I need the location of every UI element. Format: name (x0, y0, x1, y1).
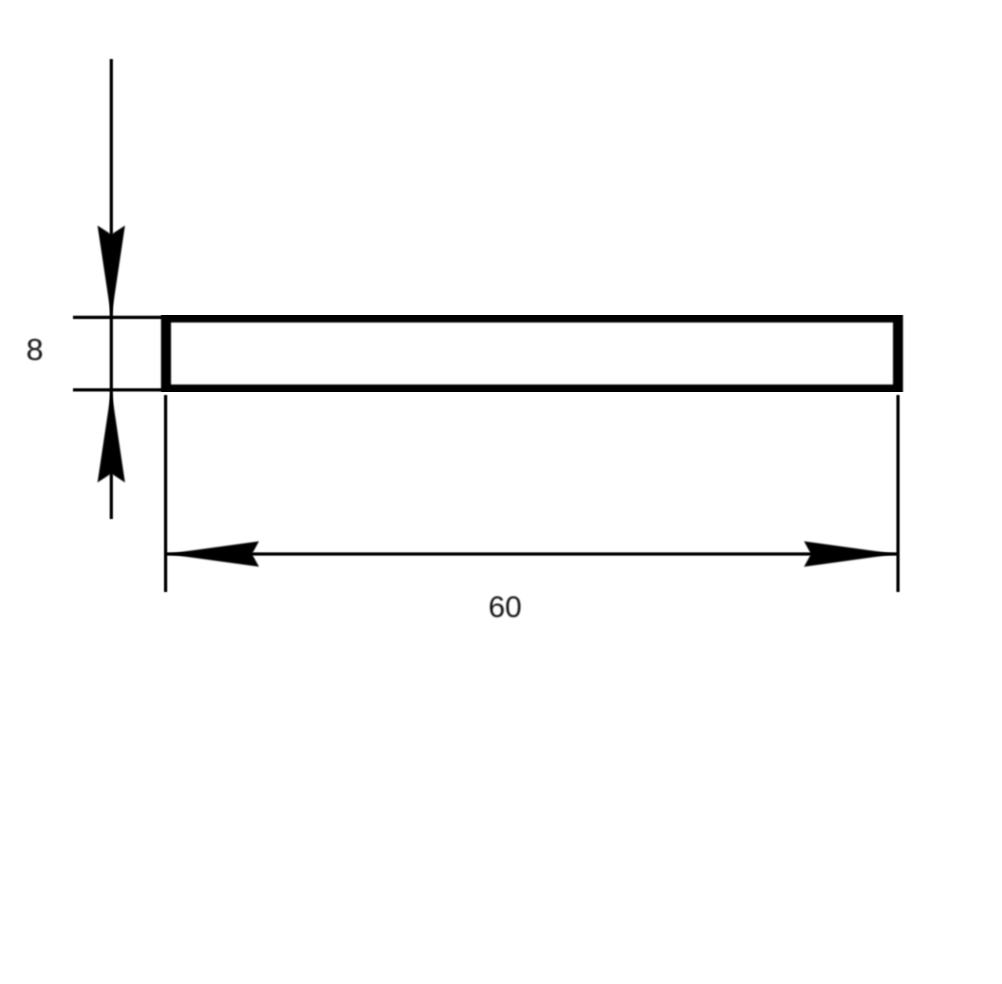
svg-text:60: 60 (488, 591, 521, 624)
svg-text:8: 8 (26, 332, 43, 367)
